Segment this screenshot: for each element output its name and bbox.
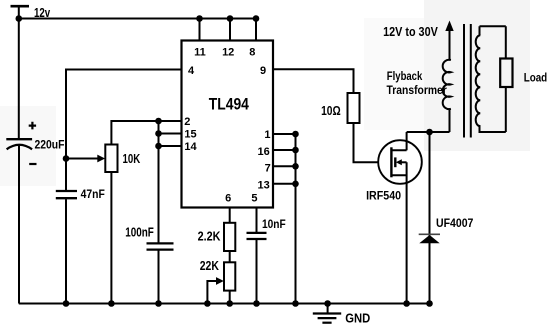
svg-text:Load: Load <box>524 70 548 84</box>
svg-text:GND: GND <box>345 311 370 326</box>
svg-text:4: 4 <box>188 65 195 77</box>
svg-text:9: 9 <box>260 65 266 77</box>
svg-text:11: 11 <box>194 46 206 58</box>
svg-text:5: 5 <box>251 193 257 205</box>
svg-text:10K: 10K <box>123 152 141 166</box>
svg-text:7: 7 <box>265 163 271 175</box>
svg-text:14: 14 <box>184 141 197 153</box>
svg-text:15: 15 <box>184 128 196 140</box>
svg-text:12: 12 <box>222 46 234 58</box>
svg-text:Flyback: Flyback <box>387 69 423 83</box>
svg-text:220uF: 220uF <box>35 140 65 152</box>
svg-text:100nF: 100nF <box>125 226 154 240</box>
svg-text:13: 13 <box>257 179 269 191</box>
svg-text:UF4007: UF4007 <box>436 216 474 230</box>
svg-text:2: 2 <box>184 116 190 128</box>
svg-text:1: 1 <box>264 129 270 141</box>
svg-text:16: 16 <box>257 146 269 158</box>
svg-text:10Ω: 10Ω <box>321 104 341 118</box>
svg-text:TL494: TL494 <box>209 95 250 114</box>
svg-text:Transformer: Transformer <box>387 83 448 97</box>
svg-text:8: 8 <box>249 46 255 58</box>
svg-text:12V to 30V: 12V to 30V <box>383 25 438 39</box>
svg-text:IRF540: IRF540 <box>366 190 401 202</box>
svg-text:22K: 22K <box>200 259 219 273</box>
svg-text:47nF: 47nF <box>81 187 105 201</box>
svg-text:6: 6 <box>225 193 231 205</box>
svg-text:2.2K: 2.2K <box>198 229 221 243</box>
svg-text:12v: 12v <box>34 5 51 20</box>
svg-text:10nF: 10nF <box>262 217 286 231</box>
